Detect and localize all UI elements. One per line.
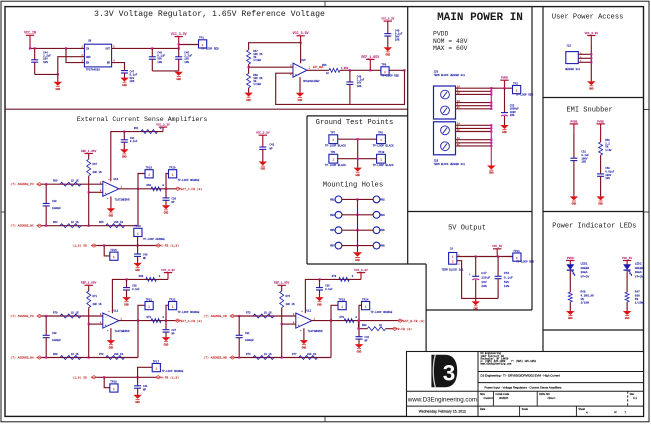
svg-text:Vf=3V: Vf=3V — [581, 275, 590, 279]
ground for C36 — [162, 205, 170, 214]
D3 Engineering logo — [431, 355, 457, 387]
svg-text:EMI Snubber: EMI Snubber — [566, 107, 612, 115]
svg-text:TERM BLOCK HEADER 3x1: TERM BLOCK HEADER 3x1 — [434, 163, 466, 166]
capacitor C44 — [31, 48, 51, 74]
svg-text:U15: U15 — [301, 59, 306, 62]
ground for C51 — [570, 196, 578, 205]
ground for C39 — [315, 297, 323, 306]
resistor R74 — [246, 353, 274, 360]
op-amp U11 — [100, 310, 130, 334]
wire R59 to C50 — [600, 155, 602, 174]
svg-text:1K 1%: 1K 1% — [71, 353, 79, 356]
svg-text:Ground Test Points: Ground Test Points — [316, 119, 394, 127]
capacitor C55 bulk — [501, 88, 519, 125]
op-amp U16 — [100, 178, 130, 202]
svg-text:Power Indicator LEDs: Power Indicator LEDs — [552, 223, 636, 231]
wire P input to op-amp U12 — [235, 315, 296, 317]
off-page connector ASENSE_NC — [10, 224, 42, 228]
capacitor C45 — [149, 48, 166, 71]
svg-text:30mA: 30mA — [581, 271, 588, 274]
wire SD row C — [97, 244, 157, 246]
wire divider tap to U15 minus input — [249, 66, 293, 68]
svg-text:3C: 3C — [457, 129, 461, 132]
svg-text:External Current Sense Amplifi: External Current Sense Amplifiers — [77, 116, 208, 123]
svg-text:GREEN: GREEN — [581, 267, 590, 270]
svg-text:20%: 20% — [481, 285, 487, 288]
svg-text:TP7: TP7 — [330, 132, 335, 135]
svg-text:NP: NP — [172, 201, 176, 204]
svg-text:U16: U16 — [114, 178, 119, 181]
svg-text:TPS7A4533: TPS7A4533 — [86, 68, 100, 71]
resistor R64 — [53, 221, 81, 228]
ground for U11 — [107, 328, 115, 349]
svg-text:NP: NP — [270, 147, 274, 150]
svg-text:R63: R63 — [147, 184, 152, 187]
svg-text:GND: GND — [625, 317, 630, 320]
svg-text:REF_1.65V: REF_1.65V — [274, 282, 289, 285]
svg-text:220uF: 220uF — [481, 276, 490, 279]
wire divider tap — [248, 64, 250, 73]
svg-text:<Doc>: <Doc> — [547, 396, 556, 400]
svg-text:NP: NP — [365, 340, 369, 343]
power flag VCC_3.3V reference — [293, 31, 309, 43]
svg-text:1.65V: 1.65V — [341, 67, 349, 70]
power flag VCC_3.3V user access — [585, 32, 599, 81]
svg-text:(7) ASENSE_PB: (7) ASENSE_PB — [203, 314, 227, 318]
svg-text:20%: 20% — [510, 114, 515, 117]
svg-text:User Power Access: User Power Access — [552, 14, 623, 22]
svg-text:www.d3engineering.com: www.d3engineering.com — [481, 362, 512, 365]
svg-text:R69: R69 — [53, 353, 58, 356]
svg-text:C54: C54 — [504, 272, 510, 275]
mounting hole MH2 — [373, 196, 385, 203]
LED1 — [567, 262, 590, 278]
svg-text:+: + — [298, 324, 300, 327]
LED2 — [624, 262, 644, 278]
svg-text:680: 680 — [635, 294, 640, 297]
off-page connector B-FB — [392, 327, 412, 331]
test point TP24 — [359, 298, 393, 320]
ground for C38 — [122, 297, 130, 306]
svg-text:GND: GND — [164, 343, 169, 346]
svg-text:D3 Engineering - TI - DRV8303/: D3 Engineering - TI - DRV8303/DRV8302 EV… — [481, 374, 561, 378]
capacitor C41 — [134, 377, 148, 394]
svg-text:5V Output: 5V Output — [448, 224, 486, 232]
ground for C45 C46 — [175, 72, 183, 81]
svg-text:1000pF: 1000pF — [52, 207, 62, 210]
resistor R66 — [99, 221, 124, 228]
svg-text:TP15: TP15 — [110, 249, 117, 252]
ground for LED1 — [566, 311, 574, 320]
svg-text:TP18: TP18 — [110, 381, 117, 384]
svg-text:TP16: TP16 — [134, 225, 141, 228]
svg-text:LED2: LED2 — [635, 262, 642, 265]
off-page connector C-FB — [156, 244, 180, 248]
off-page connector SD row A — [72, 376, 96, 380]
svg-text:EXT_C-FB (8): EXT_C-FB (8) — [181, 187, 203, 191]
resistor R60 — [53, 180, 81, 187]
svg-text:GND: GND — [135, 269, 140, 272]
capacitor C29 — [43, 184, 62, 226]
test point TP22 — [166, 298, 200, 320]
svg-text:GND: GND — [385, 54, 390, 57]
off-page connector ASENSE_NB — [203, 356, 235, 360]
svg-text:GND: GND — [109, 215, 114, 218]
svg-text:B-FB (8): B-FB (8) — [398, 327, 413, 331]
wire U8 GND pin — [58, 57, 85, 75]
svg-text:MH7: MH7 — [330, 245, 335, 248]
ground for U16 — [107, 196, 115, 217]
svg-text:30mA: 30mA — [635, 271, 642, 274]
svg-text:TP-LOOP ORANGE: TP-LOOP ORANGE — [178, 179, 200, 182]
svg-text:VCC_3.3V: VCC_3.3V — [585, 32, 599, 35]
ground for C44/U8 — [54, 74, 62, 91]
svg-text:LED1: LED1 — [581, 262, 588, 265]
resistor R73 — [147, 316, 165, 323]
wire J14 pin1 to VCC_5V rail — [457, 254, 513, 258]
wire N input / feedback rail — [42, 356, 138, 358]
resistor R70 — [53, 311, 81, 318]
resistor R58 — [247, 74, 263, 88]
resistor R48 — [568, 291, 594, 305]
svg-text:TP-LOOP BLACK: TP-LOOP BLACK — [373, 144, 394, 147]
wire supply rail U16 — [111, 131, 163, 182]
wire R47 to ground — [626, 302, 628, 311]
svg-text:1/10W: 1/10W — [253, 59, 261, 62]
svg-text:C29: C29 — [52, 200, 57, 203]
svg-text:20K 1%: 20K 1% — [286, 303, 296, 306]
capacitor C54 — [495, 257, 513, 299]
svg-text:R76: R76 — [286, 295, 291, 298]
svg-text:R48: R48 — [581, 291, 586, 294]
svg-text:0.1uF: 0.1uF — [325, 288, 333, 291]
power flag REF_1.65V for U12 — [274, 282, 289, 291]
terminal block J14 — [442, 247, 464, 271]
svg-text:MH4: MH4 — [380, 214, 385, 217]
power flag VCC_3.3V for U16 — [156, 124, 170, 132]
svg-text:R75: R75 — [246, 311, 251, 314]
svg-text:GND: GND — [246, 99, 251, 102]
svg-text:GND: GND — [357, 350, 362, 353]
svg-text:GND: GND — [124, 303, 129, 306]
wire U8 NR pin to C47 — [112, 63, 125, 71]
svg-text:GND: GND — [55, 88, 60, 91]
mounting hole MH3 — [330, 211, 342, 218]
svg-text:R80: R80 — [362, 324, 367, 327]
svg-text:GND: GND — [109, 346, 114, 349]
wire B-FB branch — [357, 320, 367, 330]
svg-text:R77: R77 — [292, 353, 297, 356]
svg-text:10%: 10% — [581, 161, 586, 164]
svg-text:TP-LOOP RED: TP-LOOP RED — [381, 75, 399, 78]
power flag VCC_3.3V for U11 — [161, 269, 175, 279]
title block frame — [407, 352, 644, 417]
svg-text:TP-LOOP RED: TP-LOOP RED — [201, 47, 219, 50]
test point TP11 — [508, 250, 534, 264]
power flag REF_1.65V for U16 — [81, 150, 96, 159]
svg-text:(7) ASENSE_NB: (7) ASENSE_NB — [203, 356, 227, 360]
svg-text:PVDD: PVDD — [567, 257, 574, 260]
capacitor C40 — [134, 246, 148, 263]
power flag VCC_IN — [24, 31, 36, 49]
svg-text:TP1: TP1 — [199, 37, 204, 40]
svg-text:10%: 10% — [157, 61, 162, 64]
wire U12 output — [312, 320, 399, 322]
test point TP10 — [373, 151, 394, 167]
ground for mounting holes — [353, 252, 362, 262]
svg-text:10%: 10% — [395, 39, 400, 42]
ground for U12 — [300, 328, 308, 349]
mounting hole MH8 — [373, 242, 385, 249]
svg-text:NP: NP — [143, 257, 147, 260]
ground for C49 — [384, 47, 392, 56]
ground for U15 — [296, 77, 304, 102]
resistor R59 — [599, 139, 612, 155]
off-page connector EXT_C-FB — [175, 187, 202, 191]
svg-text:J9: J9 — [450, 247, 454, 250]
op-amp U15 — [290, 59, 320, 83]
svg-text:U12: U12 — [307, 310, 312, 313]
off-page connector SD row C — [72, 244, 96, 248]
svg-text:GND: GND — [568, 317, 573, 320]
svg-text:J26: J26 — [434, 71, 439, 74]
svg-text:R68: R68 — [139, 275, 144, 278]
svg-text:-: - — [105, 185, 107, 188]
wires J26 pins to PVDD bus — [456, 86, 493, 110]
capacitor C48 — [346, 70, 364, 104]
svg-text:TP-LOOP RED: TP-LOOP RED — [516, 261, 534, 264]
resistor R75 — [246, 311, 274, 318]
svg-text:GND: GND — [122, 156, 127, 159]
wire P input to op-amp U16 — [42, 183, 103, 185]
svg-text:A-FB (1,8): A-FB (1,8) — [161, 376, 179, 380]
ground for C41 — [133, 395, 141, 404]
svg-text:OUT: OUT — [105, 48, 110, 51]
wire to test point TP1 — [178, 43, 199, 45]
resistor R78 — [332, 275, 354, 282]
svg-text:R66: R66 — [99, 221, 104, 224]
svg-text:REF_1.65V: REF_1.65V — [361, 55, 379, 59]
svg-text:PVDD: PVDD — [433, 31, 449, 38]
ground for C55 — [500, 125, 508, 134]
svg-text:0.1uF: 0.1uF — [130, 140, 138, 143]
svg-text:MH1: MH1 — [330, 198, 335, 201]
ground for 5V output — [472, 298, 480, 310]
svg-text:MH8: MH8 — [380, 245, 385, 248]
resistor R61 — [134, 127, 162, 134]
svg-text:2C: 2C — [457, 106, 461, 109]
wire GND bus — [490, 125, 492, 165]
mounting hole MH6 — [373, 227, 385, 234]
svg-text:GND: GND — [317, 303, 322, 306]
svg-text:GND: GND — [473, 308, 478, 311]
capacitor C51 — [570, 151, 589, 197]
capacitor C43 — [259, 144, 274, 162]
test point TP17 — [138, 360, 184, 377]
resistor R68 — [139, 275, 161, 282]
capacitor C46 — [175, 48, 192, 71]
resistor R47 — [625, 291, 643, 305]
test point TP23 — [331, 298, 346, 320]
wire LED2 to R47 — [626, 270, 628, 292]
resistor R80 — [362, 324, 386, 331]
svg-text:TP22: TP22 — [169, 298, 176, 301]
svg-text:of: of — [614, 410, 617, 414]
svg-text:MH2: MH2 — [380, 198, 385, 201]
mounting hole MH5 — [330, 227, 342, 234]
test point TP9 — [325, 151, 346, 167]
svg-text:3.3V Voltage Regulator, 1.65V: 3.3V Voltage Regulator, 1.65V Reference … — [94, 9, 325, 19]
svg-text:20K 1%: 20K 1% — [93, 171, 103, 174]
svg-text:Mounting Holes: Mounting Holes — [323, 181, 383, 189]
svg-text:GREEN: GREEN — [635, 267, 644, 270]
power flag PVDD led — [566, 257, 574, 265]
svg-text:GND: GND — [598, 203, 603, 206]
svg-text:TP9: TP9 — [330, 151, 335, 154]
capacitor C30 — [43, 316, 62, 358]
svg-text:10%: 10% — [184, 61, 189, 64]
svg-text:GND: GND — [122, 84, 127, 87]
svg-text:TP8: TP8 — [378, 132, 383, 135]
wire N input / feedback rail — [235, 356, 331, 358]
svg-text:0.1uF: 0.1uF — [132, 288, 140, 291]
svg-text:20K 1%: 20K 1% — [93, 303, 103, 306]
svg-text:GND: GND — [489, 172, 494, 175]
wire mounting hole row 2 — [342, 214, 373, 216]
resistor R76 — [280, 291, 295, 308]
test point TP21 — [138, 298, 153, 320]
wire divider top rail — [249, 42, 302, 50]
wire LED1 to R48 — [569, 270, 571, 292]
wire U8 EN pin — [66, 48, 84, 62]
svg-text:R74: R74 — [246, 353, 251, 356]
svg-text:R56: R56 — [322, 64, 327, 67]
wire U16 output — [119, 188, 176, 190]
svg-text:EXT_B-FB (8): EXT_B-FB (8) — [403, 319, 425, 323]
test point TP9 — [381, 64, 400, 78]
svg-text:3: 3 — [443, 361, 456, 386]
wire mounting hole row 1 — [342, 198, 373, 200]
svg-text:(7) ASENSE_PA: (7) ASENSE_PA — [10, 314, 34, 318]
svg-text:1000pF: 1000pF — [245, 339, 255, 342]
svg-text:50V: 50V — [504, 281, 510, 284]
svg-text:R79: R79 — [340, 316, 345, 319]
ground for divider — [244, 88, 252, 102]
power flag VCC_3.3V regulator output — [171, 32, 187, 48]
svg-text:(1,8) SD: (1,8) SD — [72, 376, 87, 380]
svg-text:R71: R71 — [93, 295, 98, 298]
svg-text:1%: 1% — [581, 298, 585, 301]
svg-text:+: + — [105, 192, 107, 195]
svg-text:TP2: TP2 — [513, 82, 518, 85]
capacitor C42 — [356, 321, 370, 345]
resistor R79 — [340, 316, 358, 323]
off-page connector ASENSE_PC — [10, 182, 42, 186]
ground for C42 — [355, 344, 363, 353]
svg-text:Scale: Scale — [522, 408, 529, 411]
svg-text:1K 1%: 1K 1% — [71, 221, 79, 224]
test point TP2 — [513, 82, 534, 96]
svg-text:R67: R67 — [93, 163, 98, 166]
svg-text:MAX = 60V: MAX = 60V — [433, 45, 468, 52]
test point TP20 — [166, 167, 200, 189]
svg-text:TP-LOOP ORANGE: TP-LOOP ORANGE — [162, 370, 184, 373]
test point TP8 — [373, 132, 394, 148]
svg-text:1K 1%: 1K 1% — [264, 353, 272, 356]
svg-text:GND: GND — [589, 87, 594, 90]
svg-text:VCC_3.3V: VCC_3.3V — [171, 32, 187, 36]
svg-text:-: - — [298, 316, 300, 319]
power flag VCC_5V led — [622, 257, 632, 265]
wire U15 output — [307, 66, 329, 70]
svg-text:MH5: MH5 — [330, 229, 335, 232]
svg-text:EXT_A-FB (8): EXT_A-FB (8) — [181, 319, 203, 323]
svg-text:C-FB (1,8): C-FB (1,8) — [161, 244, 179, 248]
off-page connector ASENSE_PB — [203, 314, 235, 318]
ground for C40 — [133, 263, 141, 272]
svg-text:10%: 10% — [43, 61, 48, 64]
ground for J13 — [587, 81, 595, 90]
power flag VCC_3.3V for U12 — [354, 269, 368, 279]
svg-text:Wednesday, February 15, 2012: Wednesday, February 15, 2012 — [419, 410, 466, 414]
svg-text:PVDD: PVDD — [501, 77, 508, 80]
svg-text:PVDD: PVDD — [571, 120, 578, 123]
svg-text:R70: R70 — [53, 311, 58, 314]
svg-text:MH6: MH6 — [380, 229, 385, 232]
svg-text:1/10W: 1/10W — [253, 83, 261, 86]
ground for test points — [354, 168, 362, 177]
svg-text:VCC_3.3V: VCC_3.3V — [293, 31, 309, 35]
wires J28 pins to GND bus — [456, 123, 493, 147]
svg-text:-: - — [105, 316, 107, 319]
svg-text:TP19: TP19 — [146, 167, 153, 170]
section divider lines — [5, 108, 408, 110]
svg-text:TP24: TP24 — [362, 298, 369, 301]
svg-text:PVDD: PVDD — [597, 120, 604, 123]
resistor R56 — [322, 64, 340, 75]
resistor R63 — [147, 184, 165, 191]
wire P input to op-amp U11 — [42, 315, 103, 317]
op-amp U12 — [293, 310, 323, 334]
test point TP18 — [104, 377, 118, 392]
capacitor C34 — [121, 132, 138, 150]
wire REF to plus input — [281, 308, 296, 358]
wire REF to plus input — [88, 176, 103, 226]
svg-text:TP20: TP20 — [169, 167, 176, 170]
svg-text:TL072WDBVR: TL072WDBVR — [115, 198, 131, 201]
svg-text:+: + — [105, 324, 107, 327]
svg-text:Custom: Custom — [484, 396, 495, 400]
ground for J28 bus — [487, 166, 495, 175]
svg-text:R64: R64 — [53, 221, 58, 224]
svg-text:VCC_3.3V: VCC_3.3V — [354, 269, 368, 272]
svg-text:GND: GND — [302, 346, 307, 349]
svg-text:TP11: TP11 — [513, 250, 520, 253]
test point TP15 — [104, 246, 118, 261]
wire PVDD node to TP2 — [491, 87, 512, 89]
terminal block J26 — [434, 71, 466, 119]
svg-text:TL072WDBVR: TL072WDBVR — [308, 330, 324, 333]
svg-text:0.1uF: 0.1uF — [504, 276, 513, 279]
capacitor C47 — [121, 71, 138, 83]
off-page connector EXT_B-FB — [398, 319, 425, 323]
svg-text:C47: C47 — [481, 272, 487, 275]
svg-text:1000pF: 1000pF — [52, 339, 62, 342]
svg-text:TP23: TP23 — [339, 298, 346, 301]
ground for LED2 — [623, 311, 631, 320]
power flag VCC_5V — [492, 245, 502, 256]
svg-text:4.99K_HV: 4.99K_HV — [581, 294, 595, 297]
